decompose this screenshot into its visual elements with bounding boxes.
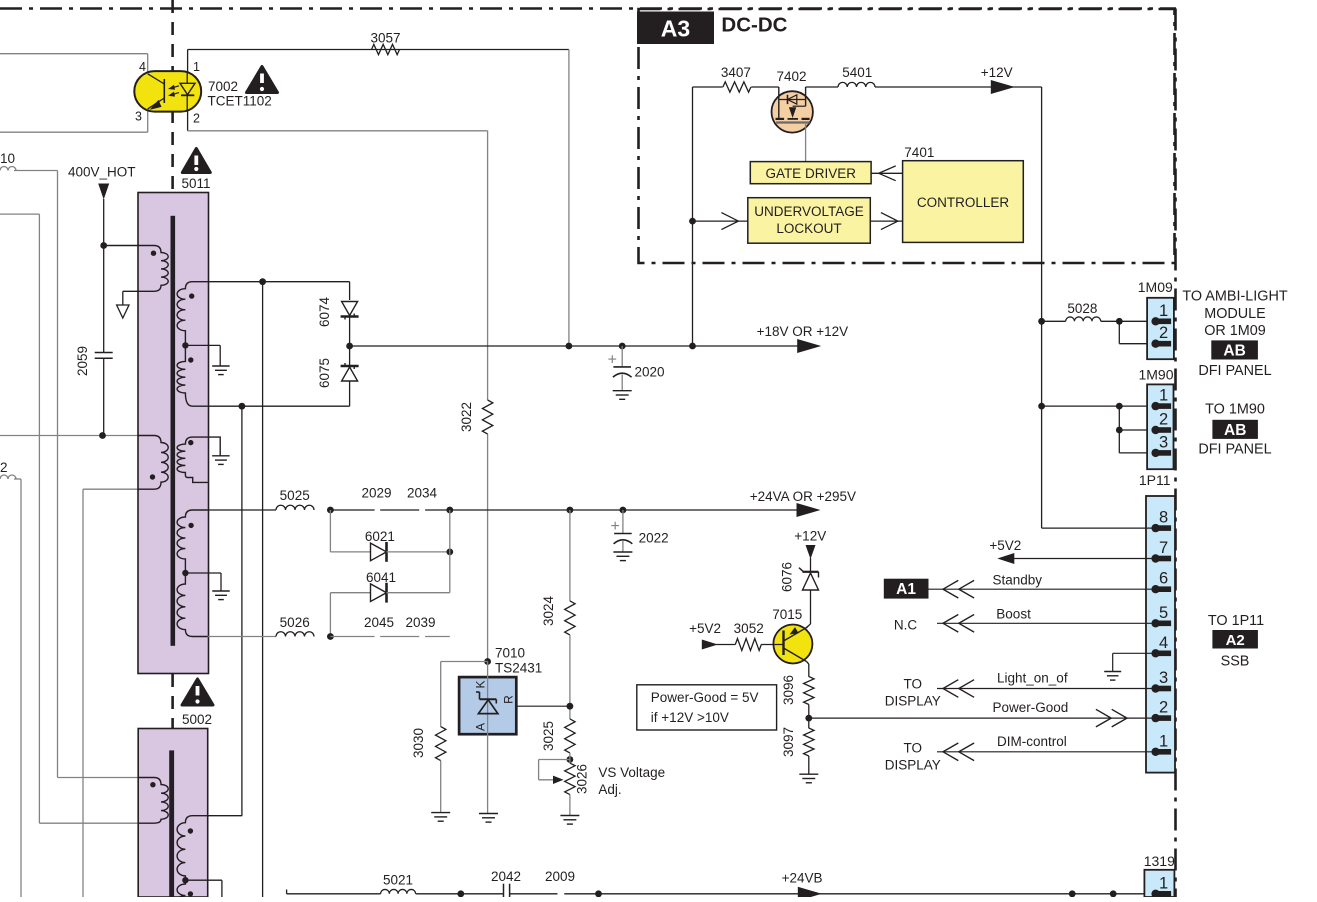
optocoupler 7002 phototransistor	[163, 79, 165, 103]
svg-text:Standby: Standby	[993, 573, 1043, 588]
svg-text:DFI PANEL: DFI PANEL	[1198, 363, 1271, 379]
svg-text:6074: 6074	[317, 296, 332, 327]
7402 gate arrow	[793, 105, 806, 107]
svg-text:A3: A3	[661, 16, 690, 42]
svg-text:VS Voltage: VS Voltage	[598, 765, 665, 780]
wire TS2431 cathode-anode through box	[487, 662, 489, 814]
transformer 5011 body	[138, 193, 209, 674]
note box Power-Good	[637, 685, 777, 730]
ground 3097	[799, 773, 818, 775]
node UV input	[689, 218, 696, 225]
svg-text:5021: 5021	[383, 873, 413, 888]
wire +24VB rail	[286, 890, 288, 894]
svg-text:7: 7	[1159, 539, 1168, 557]
capacitor 2009 (series gap)	[564, 893, 1155, 895]
wire 5401 to +12V out	[875, 86, 1042, 88]
1319 pin 1	[1158, 891, 1172, 897]
wire UV to controller	[870, 220, 902, 222]
node +12V/1M90	[1038, 403, 1045, 410]
svg-text:2039: 2039	[405, 615, 435, 630]
svg-text:3052: 3052	[734, 621, 764, 636]
wire +24VA to 3024	[569, 510, 571, 601]
svg-text:TO 1M90: TO 1M90	[1205, 402, 1265, 418]
wire 3407 to 7402	[751, 86, 779, 88]
svg-text:2: 2	[193, 112, 200, 126]
node 3057/+18V	[566, 343, 573, 350]
svg-text:5401: 5401	[842, 65, 872, 80]
1P11 pin 2	[1158, 715, 1172, 721]
wire 5002 secondary tap down	[185, 879, 222, 881]
node R/3025	[567, 703, 574, 710]
svg-text:3022: 3022	[459, 402, 474, 432]
svg-text:3407: 3407	[721, 65, 751, 80]
svg-text:A1: A1	[896, 581, 916, 598]
svg-text:3: 3	[1159, 433, 1168, 451]
svg-text:+24VB: +24VB	[782, 871, 823, 886]
svg-text:1P11: 1P11	[1139, 472, 1171, 488]
capacitor 2029 (series gap)	[380, 509, 419, 511]
node A3 rail/+18V	[689, 343, 696, 350]
wire branch to 1M90 pins 2,3	[1118, 406, 1120, 430]
svg-text:7402: 7402	[776, 69, 806, 84]
wire 7402 to gate driver	[805, 123, 807, 162]
1P11 pin 4	[1158, 651, 1172, 657]
svg-text:3024: 3024	[541, 595, 556, 626]
wire 400V_HOT down to node	[103, 199, 105, 246]
svg-text:7401: 7401	[904, 145, 934, 160]
wire 5026 to caps 2045/2039	[330, 636, 374, 638]
1P11 pin 5	[1158, 621, 1172, 627]
svg-text:3030: 3030	[411, 728, 426, 758]
node 400V_HOT / winding A	[100, 242, 107, 249]
node 6021 cathode	[446, 549, 453, 556]
transformer 5011 winding S3 (to 5025/5026)	[177, 510, 208, 637]
arrow +12V in A3	[991, 80, 1015, 94]
ground TS2431	[479, 813, 498, 815]
transformer 5011 winding S2	[177, 437, 220, 482]
svg-text:A: A	[474, 723, 488, 731]
tag AB (1M09)	[1211, 340, 1258, 359]
svg-text:3097: 3097	[781, 727, 796, 757]
svg-text:DFI PANEL: DFI PANEL	[1198, 442, 1271, 458]
svg-text:DIM-control: DIM-control	[997, 734, 1067, 749]
7402 body diode	[779, 99, 806, 101]
node 3024/+24VA	[567, 507, 574, 514]
wire 3097 to ground	[808, 756, 810, 774]
wire secondary S3 bottom to 5026	[208, 636, 276, 638]
arrow +18V OR +12V	[797, 339, 821, 353]
svg-text:if +12V >10V: if +12V >10V	[651, 710, 729, 725]
svg-text:R: R	[502, 695, 516, 704]
svg-text:TS2431: TS2431	[495, 660, 542, 675]
wire optocoupler pin1 to resistor 3057 net	[187, 50, 189, 72]
wire S1 center tap to ground	[185, 344, 220, 346]
wire +5V2 from pin7	[1013, 558, 1156, 560]
arrow 400V_HOT	[98, 184, 109, 200]
wire 3026 to ground	[569, 795, 571, 816]
inductor 5025	[276, 505, 314, 510]
svg-text:4: 4	[139, 60, 146, 74]
wire Light_on_of	[937, 688, 1156, 690]
module label A3	[637, 12, 714, 45]
node +12V/5028	[1038, 318, 1045, 325]
wire 2042 to 2009	[510, 893, 558, 895]
wire rail x242 down to 5002 secondary	[241, 406, 243, 816]
wire 3096 to node	[808, 705, 810, 729]
capacitor 2059	[103, 246, 105, 353]
capacitor 2042	[503, 884, 505, 897]
arrow +24VA OR +295V	[797, 503, 821, 517]
svg-text:3096: 3096	[781, 675, 796, 705]
svg-text:3: 3	[135, 110, 142, 124]
wire optocoupler pin2 feedback	[187, 111, 189, 131]
transformer 5002 core	[169, 750, 174, 897]
wire left rail from page edge y214	[0, 213, 39, 215]
ground 3026	[560, 815, 579, 817]
warning symbol 5002	[182, 679, 213, 705]
svg-text:1M90: 1M90	[1138, 367, 1173, 383]
svg-text:GATE DRIVER: GATE DRIVER	[765, 166, 856, 181]
svg-text:6021: 6021	[365, 529, 395, 544]
node 5002 tap	[182, 877, 188, 883]
svg-text:TO 1P11: TO 1P11	[1208, 613, 1264, 629]
wire A3 left rail	[692, 87, 694, 346]
transistor 7015 (PNP)	[773, 625, 812, 664]
tag A1	[884, 579, 929, 599]
node bottom 2	[1110, 890, 1117, 897]
diode 6041	[330, 592, 371, 594]
svg-text:TCET1102: TCET1102	[208, 94, 272, 109]
svg-text:400V_HOT: 400V_HOT	[68, 165, 136, 180]
node S1 top / rail 262	[259, 278, 266, 285]
wire 5021 to 2042	[416, 893, 504, 895]
wire 6076 to 7015 emitter	[810, 590, 812, 624]
svg-text:2059: 2059	[75, 346, 90, 376]
box CONTROLLER U7401	[903, 161, 1024, 243]
wire +12V rail to pin 8	[1042, 527, 1156, 529]
svg-text:10: 10	[0, 151, 15, 166]
svg-text:2034: 2034	[407, 486, 438, 501]
node 5026 out	[327, 633, 334, 640]
svg-text:+12V: +12V	[794, 529, 826, 544]
svg-text:+18V OR +12V: +18V OR +12V	[757, 324, 849, 339]
wire rail x262 down page	[262, 282, 264, 897]
isolation divider (dashed) upper	[171, 0, 174, 192]
wire Standby	[929, 588, 1156, 590]
arrow +5V2 supply	[702, 640, 718, 650]
svg-text:Adj.: Adj.	[598, 782, 621, 797]
node 2059 bottom	[99, 432, 106, 439]
svg-text:DISPLAY: DISPLAY	[885, 694, 941, 709]
box UNDERVOLTAGE LOCKOUT	[748, 198, 871, 244]
module A3 border (dash-dot)	[639, 9, 1175, 263]
node K 3030	[484, 658, 491, 665]
svg-text:OR 1M09: OR 1M09	[1204, 323, 1266, 339]
1M09 pin 2	[1158, 341, 1172, 347]
svg-text:2020: 2020	[635, 365, 665, 380]
svg-text:2: 2	[1159, 699, 1168, 717]
svg-text:Power-Good: Power-Good	[993, 700, 1069, 715]
arrow +24VB	[798, 887, 822, 901]
resistor 3030	[436, 727, 446, 761]
node S1 bottom / rail 242	[239, 403, 246, 410]
node 5028 out	[1116, 318, 1123, 325]
svg-text:5026: 5026	[280, 615, 310, 630]
warning symbol 5011	[182, 149, 210, 173]
svg-text:CONTROLLER: CONTROLLER	[917, 195, 1010, 210]
wire 5025 node to caps 2029/2034	[330, 509, 374, 511]
shunt regulator 7010 TS2431 body	[459, 677, 516, 734]
ground S2 tap	[212, 455, 230, 457]
1P11 pin 6	[1158, 586, 1172, 592]
node S1 center tap	[182, 342, 188, 348]
svg-text:LOCKOUT: LOCKOUT	[776, 221, 841, 236]
svg-text:3026: 3026	[575, 764, 590, 794]
svg-text:N.C: N.C	[894, 618, 918, 633]
wire +24VA rail	[450, 509, 798, 511]
wire 3024 to R node	[569, 635, 571, 719]
node +18V start	[346, 343, 353, 350]
wire Boost	[937, 622, 1156, 624]
capacitor 2039 (series gap)	[425, 636, 450, 638]
svg-text:DISPLAY: DISPLAY	[885, 758, 941, 773]
node +24VA start	[446, 507, 453, 514]
wire +5V2 to 3052	[716, 644, 735, 646]
capacitor 2045 (series gap)	[380, 636, 419, 638]
svg-text:4: 4	[1159, 634, 1168, 652]
wire secondary S1 top to 6074	[208, 281, 350, 283]
node bottom 1	[1069, 890, 1076, 897]
inductor 5401	[838, 82, 875, 87]
svg-text:+12V: +12V	[981, 65, 1013, 80]
resistor 3407	[723, 82, 751, 92]
tag A2	[1212, 630, 1258, 649]
wire 3030 branch	[441, 661, 488, 663]
svg-text:5002: 5002	[182, 712, 212, 727]
capacitor 2034 (series gap)	[425, 509, 450, 511]
wire secondary S3 top to 5025	[208, 509, 276, 511]
7010 internal symbol	[480, 698, 497, 700]
transformer 5002 body	[138, 729, 208, 898]
1M09 pin 1	[1158, 319, 1172, 325]
wire primary-side drive box to optocoupler pins 4/3	[0, 53, 148, 55]
wire S3 center tap to ground	[185, 572, 221, 574]
1M90 pin 2	[1158, 427, 1172, 433]
svg-text:1: 1	[1159, 302, 1168, 320]
node Power-Good	[805, 715, 812, 722]
capacitor 2020 electrolytic	[621, 346, 623, 367]
svg-text:AB: AB	[1224, 422, 1246, 439]
wire 3052 to base	[761, 644, 783, 646]
svg-text:3: 3	[1159, 669, 1168, 687]
node S3 center tap	[182, 570, 188, 576]
wire 6075 anode to S1 bottom	[349, 381, 351, 406]
svg-text:1: 1	[1159, 387, 1168, 405]
wire 5028 to 1M09 pin1	[1101, 320, 1156, 322]
optocoupler U7002 TCET1102 body	[134, 71, 201, 112]
node 3025/3026	[567, 756, 574, 763]
transformer 5011 secondary winding S1 (to 6074/6075)	[177, 282, 208, 407]
resistor 3024	[565, 601, 575, 635]
wire 3030 to ground	[440, 761, 442, 813]
MOSFET 7402	[772, 91, 813, 132]
svg-text:5028: 5028	[1067, 301, 1097, 316]
node 1M90 branch	[1116, 403, 1123, 410]
svg-text:+: +	[608, 352, 617, 369]
svg-text:1: 1	[1159, 732, 1168, 750]
wire 6021 branch	[329, 510, 331, 552]
resistor 3096	[804, 677, 814, 705]
wire rail from stub 2 to page bottom	[14, 478, 21, 480]
arrow +12V supply	[806, 545, 816, 559]
svg-text:6075: 6075	[317, 358, 332, 388]
svg-text:+5V2: +5V2	[689, 621, 721, 636]
svg-text:DC-DC: DC-DC	[721, 14, 787, 37]
svg-text:1M09: 1M09	[1138, 279, 1173, 295]
svg-text:TO: TO	[904, 677, 923, 692]
svg-text:5025: 5025	[280, 488, 310, 503]
resistor 3022 in feedback line	[482, 400, 492, 434]
7402 source/drain bars	[776, 118, 785, 120]
inductor 5028	[1042, 320, 1066, 322]
svg-text:2022: 2022	[639, 531, 669, 546]
wire 3057 output down to +18V rail	[568, 50, 570, 347]
potentiometer 3026	[565, 763, 575, 795]
svg-text:6: 6	[1159, 570, 1168, 588]
wire UV input	[693, 220, 748, 222]
node 2022/+24VA	[620, 507, 627, 514]
optocoupler 7002 light arrows	[171, 86, 180, 89]
wire 7402 drain to 5401	[806, 86, 838, 88]
wire +12V to 6076	[810, 558, 812, 572]
diode 6021	[371, 543, 387, 561]
resistor 3097	[804, 728, 814, 756]
capacitor 2022 electrolytic	[622, 510, 624, 534]
svg-text:7015: 7015	[772, 607, 802, 622]
transformer 5002 primary winding	[138, 778, 168, 824]
svg-text:+: +	[611, 518, 620, 535]
wire emitter to 3096	[807, 662, 809, 665]
svg-text:Power-Good = 5V: Power-Good = 5V	[651, 690, 759, 705]
wire controller to gate driver	[871, 172, 903, 174]
node 5021/2042	[457, 890, 464, 897]
svg-text:TO: TO	[904, 741, 923, 756]
wire 5002 secondary top to rail	[208, 815, 243, 817]
svg-text:6041: 6041	[366, 570, 396, 585]
svg-text:3057: 3057	[370, 31, 400, 46]
1M90 pin 1	[1158, 403, 1172, 409]
transformer 5011 primary winding B	[138, 436, 168, 490]
ground pin4	[1104, 671, 1121, 673]
wire 3026 wiper loop	[539, 759, 570, 761]
svg-text:1: 1	[1159, 874, 1168, 892]
svg-text:A2: A2	[1226, 632, 1245, 649]
svg-text:+24VA OR +295V: +24VA OR +295V	[750, 489, 856, 504]
1P11 pin 3	[1158, 686, 1172, 692]
svg-text:MODULE: MODULE	[1204, 306, 1266, 322]
wire feedback net down through 3022	[487, 131, 489, 400]
svg-text:8: 8	[1159, 509, 1168, 527]
svg-text:1: 1	[193, 60, 200, 74]
transformer 5002 secondary winding	[177, 816, 208, 902]
wire +18V rail	[350, 345, 798, 347]
svg-text:2045: 2045	[364, 615, 394, 630]
diode 6075	[341, 365, 359, 367]
svg-text:UNDERVOLTAGE: UNDERVOLTAGE	[754, 204, 864, 219]
box GATE DRIVER	[750, 162, 871, 184]
svg-text:3025: 3025	[541, 721, 556, 751]
svg-text:SSB: SSB	[1221, 654, 1250, 670]
wire node up to +24VA	[449, 510, 451, 593]
svg-text:2: 2	[1159, 411, 1168, 429]
transformer 5011 primary winding A	[104, 246, 169, 292]
resistor 3025	[565, 719, 575, 753]
svg-text:2029: 2029	[361, 486, 391, 501]
tag AB (1M90)	[1212, 420, 1258, 439]
resistor 3057	[372, 44, 400, 54]
chassis ground for winding A	[122, 291, 124, 305]
zener diode 6076	[803, 571, 819, 573]
svg-text:Boost: Boost	[996, 607, 1031, 622]
transformer 5011 core	[171, 216, 176, 646]
node 5025 out	[327, 507, 334, 514]
wire rail from 5010 to transformer 5002 primary top	[57, 171, 59, 778]
svg-text:2009: 2009	[545, 869, 575, 884]
svg-text:5: 5	[1159, 604, 1168, 622]
wire 6041 anode branch from 5026 node	[329, 593, 331, 637]
svg-text:7002: 7002	[208, 79, 238, 94]
svg-text:+5V2: +5V2	[989, 538, 1021, 553]
warning symbol near 7002	[247, 67, 278, 93]
diode 6074	[342, 302, 358, 316]
1P11 pin 1	[1158, 749, 1172, 755]
svg-text:5011: 5011	[181, 176, 210, 191]
1P11 pin 8	[1158, 525, 1172, 531]
wire R node to TS2431 R pin	[495, 705, 570, 707]
node after 2009	[595, 890, 602, 897]
ground 3030	[431, 812, 450, 814]
isolation divider (dashed) between transformers	[171, 674, 174, 728]
wire branch to 1M09 pin2	[1118, 321, 1120, 343]
page right border (dash-dot)	[1174, 9, 1177, 898]
wire +12V rail down to connectors	[1041, 87, 1043, 528]
wire DIM-control	[937, 751, 1156, 753]
resistor 3052	[735, 639, 761, 651]
wire to 1M90 pin1	[1042, 405, 1156, 407]
svg-text:2: 2	[0, 460, 8, 475]
svg-text:1319: 1319	[1144, 853, 1175, 869]
wire 6074 cathode to +18V node	[349, 317, 351, 377]
inductor 5021	[381, 889, 416, 893]
1P11 pin 7	[1158, 556, 1172, 562]
svg-text:AB: AB	[1223, 343, 1245, 360]
svg-text:7010: 7010	[495, 646, 525, 661]
svg-text:6076: 6076	[779, 562, 794, 592]
page top border (dash-dot)	[0, 7, 1176, 10]
svg-text:K: K	[474, 680, 488, 688]
svg-text:2: 2	[1159, 324, 1168, 342]
wire winding B bottom rail	[83, 488, 138, 490]
wire winding B top net (2059 node)	[0, 435, 138, 437]
svg-text:Light_on_of: Light_on_of	[997, 671, 1068, 686]
svg-text:2042: 2042	[491, 869, 521, 884]
inductor 5026	[276, 632, 314, 637]
1M90 pin 3	[1158, 450, 1172, 456]
svg-text:TO AMBI-LIGHT: TO AMBI-LIGHT	[1182, 289, 1287, 305]
wire Power-Good to pin2	[809, 717, 1156, 719]
node 2020/+18V	[619, 343, 626, 350]
optocoupler 7002 LED	[186, 71, 188, 83]
